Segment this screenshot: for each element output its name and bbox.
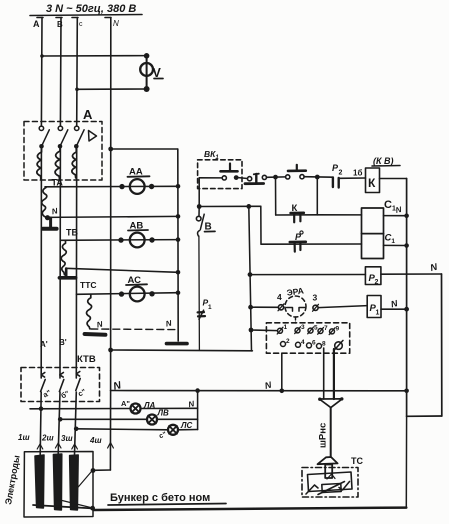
wire P2 box to right edge (381, 273, 442, 275)
svg-text:В: В (57, 20, 63, 29)
node C1 lower rail (404, 243, 409, 248)
svg-text:шРнс: шРнс (318, 423, 329, 448)
switch V (196, 207, 215, 237)
wire start to P2 contact (304, 176, 332, 179)
svg-text:ЛА: ЛА (143, 401, 155, 410)
svg-text:К: К (368, 176, 376, 190)
svg-text:1: 1 (376, 310, 380, 317)
phase line A (37, 18, 43, 456)
ERA row wire left (251, 306, 279, 308)
neutral line N (105, 18, 111, 391)
wire 4sh into bunker (93, 469, 110, 471)
svg-text:С1: С1 (385, 233, 396, 246)
ERA stub to terminal box (295, 317, 297, 323)
terminal 1 (277, 324, 287, 334)
cable pair wire 2 (333, 349, 335, 399)
svg-text:3: 3 (313, 293, 318, 303)
cable pair wire 1 (323, 348, 325, 399)
svg-text:с: с (79, 21, 83, 28)
arrow on 4sh line (108, 443, 114, 449)
breaker coil pole A (37, 146, 42, 179)
cable drop to N bus (281, 353, 283, 391)
svg-text:6: 6 (312, 340, 316, 347)
bell neck (325, 465, 332, 479)
N/4sh drop to bunker (109, 391, 111, 471)
wire lampA to N (141, 407, 198, 409)
right rail lower (405, 416, 407, 507)
wire voltmeter top (42, 55, 147, 57)
TB ground (59, 269, 75, 278)
node lamp row B (58, 417, 63, 422)
sensor top marks (327, 474, 335, 479)
breaker pole C switch (74, 126, 84, 149)
svg-text:N: N (395, 205, 403, 215)
relay P1 box (367, 296, 381, 318)
svg-text:с": с" (76, 387, 87, 399)
node bunker lower (90, 506, 95, 511)
terminal block dashed box (266, 323, 349, 353)
wire P1 box to rail (381, 308, 407, 310)
right rail upper (406, 179, 408, 417)
node C1 upper rail (404, 213, 409, 218)
transformer TA winding (42, 188, 47, 218)
svg-text:N: N (390, 298, 399, 309)
funnel corner blob right (340, 397, 343, 400)
terminal 5 (308, 325, 318, 334)
VK1 contact (199, 164, 238, 181)
svg-text:ТВ: ТВ (66, 228, 78, 238)
ERA terminal 4 (278, 304, 284, 311)
cable gland (334, 340, 343, 350)
transformer TB winding (61, 240, 66, 274)
ERA internal pin right (299, 308, 305, 312)
KTV contact pole C (76, 372, 80, 391)
arrow on electrode stub 2 (55, 443, 61, 448)
KTV contact pole A (41, 373, 46, 392)
N return row from TB (66, 268, 178, 272)
wire P2 contact to K coil (340, 177, 366, 179)
svg-text:4: 4 (301, 339, 305, 346)
N distribution bus (111, 390, 407, 392)
start button (286, 165, 306, 179)
limit switch VK1 dashed box (198, 160, 242, 189)
node on return row (176, 214, 181, 219)
svg-text:1б: 1б (353, 169, 362, 178)
relay P2 box (365, 267, 381, 285)
ERA dashed circle (285, 296, 306, 317)
dropper A vertical (249, 206, 252, 350)
phase line C (72, 18, 78, 456)
svg-text:ЛС: ЛС (180, 421, 192, 430)
svg-text:2: 2 (339, 170, 343, 177)
svg-text:А": А" (121, 399, 130, 408)
node at A (40, 54, 44, 58)
dropper B vertical (260, 206, 262, 244)
funnel corner blob left (318, 398, 321, 401)
node P1 rail (404, 307, 409, 312)
svg-text:N: N (113, 19, 119, 28)
lamps common vertical to N bus (197, 391, 199, 430)
arrow on electrode stub 1 (37, 444, 43, 449)
svg-text:ТА: ТА (52, 178, 64, 188)
breaker pole A switch (39, 126, 49, 149)
bunker box (24, 452, 93, 518)
svg-text:N: N (51, 206, 59, 216)
C1 capacitor boxes (362, 208, 384, 259)
ammeter AB (128, 221, 148, 248)
wire K coil to right rail (380, 178, 407, 180)
jog wire (407, 415, 442, 417)
terminal 6 (307, 340, 317, 348)
right edge vertical (441, 274, 443, 416)
svg-text:7: 7 (324, 325, 328, 332)
terminal 4 (296, 339, 306, 347)
svg-text:N: N (165, 319, 173, 329)
electrode 2 (53, 454, 61, 510)
contact K (291, 203, 304, 222)
terminal 3 (295, 324, 305, 334)
breaker coil pole B (55, 146, 60, 178)
ammeter AB row (60, 237, 180, 243)
node ERA row (248, 305, 253, 310)
svg-text:ТС: ТС (351, 456, 363, 466)
KV underline (372, 165, 400, 168)
voltmeter V (140, 56, 163, 89)
arrow on electrode stub 3 (72, 444, 78, 449)
bunker label underline (108, 504, 226, 506)
svg-text:N: N (96, 320, 104, 330)
svg-text:ТТС: ТТС (80, 280, 97, 290)
node lamp row C (74, 427, 79, 432)
title 3N~50Hz 380V (46, 3, 136, 15)
wire P2 coil row (250, 274, 365, 276)
wire N to ammeter common (111, 148, 178, 150)
wire lampB to N (157, 418, 198, 420)
svg-text:А': А' (40, 340, 48, 349)
node at V switch (197, 204, 202, 209)
funnel (319, 399, 342, 408)
sensor bell (318, 457, 338, 464)
svg-text:2ш: 2ш (41, 434, 54, 443)
breaker pole B switch (58, 126, 68, 149)
wire ERA to P1 coil (319, 306, 368, 308)
ERA terminal 3 (313, 304, 319, 311)
svg-text:КТВ: КТВ (77, 354, 96, 365)
terminal 9 (329, 326, 339, 335)
svg-text:Бункер с бето ном: Бункер с бето ном (110, 492, 210, 504)
node voltmeter top (144, 53, 150, 59)
ammeter AC (126, 275, 147, 301)
svg-text:8: 8 (322, 341, 326, 348)
node on bunker wall (91, 468, 96, 473)
contact P1 (in V branch) (198, 298, 212, 320)
svg-text:4ш: 4ш (89, 436, 102, 445)
node on N line (108, 147, 113, 152)
svg-text:б": б" (59, 389, 71, 401)
electrode bottom diagonal 1 (33, 505, 93, 508)
lamp row A (30, 408, 131, 410)
sensor inner housing (308, 472, 353, 492)
breaker trip triangle (89, 131, 97, 142)
svg-text:1: 1 (284, 324, 288, 331)
node drop to C1 (315, 175, 320, 180)
node lamp row A (39, 406, 44, 411)
wire V switch down (198, 236, 201, 350)
node right rail N bus (404, 389, 409, 394)
svg-text:А: А (83, 107, 93, 122)
svg-text:а": а" (41, 388, 52, 400)
lamp LA (131, 404, 141, 414)
svg-text:с": с" (158, 431, 167, 440)
svg-text:2: 2 (286, 338, 290, 345)
lamp LB (147, 415, 157, 425)
sensor TC dash-dot box (302, 468, 358, 498)
electrode 3 (70, 455, 79, 510)
svg-text:N: N (264, 380, 273, 391)
node cable N (280, 389, 285, 394)
diagonal to upper node (77, 472, 92, 490)
N return row from TTC (dashed) (91, 328, 178, 331)
svg-text:(К В): (К В) (373, 156, 394, 166)
sensor lead left (306, 485, 318, 494)
svg-text:2: 2 (375, 279, 379, 286)
wire voltmeter bottom (77, 88, 147, 90)
svg-text:N: N (112, 379, 123, 393)
svg-text:ЛВ: ЛВ (157, 409, 169, 418)
wire to C1 upper (317, 214, 361, 216)
node lamps common (195, 388, 200, 393)
sensor lead right (339, 482, 350, 491)
breaker A dashed box (24, 122, 102, 181)
svg-text:3: 3 (301, 324, 305, 331)
wire lampC to N (178, 429, 198, 431)
svg-text:3 N ~ 50гц, 380 В: 3 N ~ 50гц, 380 В (46, 3, 136, 15)
node on TB return row (176, 270, 181, 275)
contactor KTV dashed box (21, 368, 100, 402)
node at C (75, 88, 79, 92)
node P2 row (248, 272, 253, 277)
N bus upper (111, 349, 253, 352)
KTV contact pole B (59, 373, 63, 392)
ammeter AA (128, 167, 150, 194)
thermistor element (318, 482, 345, 495)
node dropper A (246, 204, 251, 209)
node voltmeter bottom (144, 86, 150, 92)
ammeter common ground (167, 342, 188, 346)
wire P contact row (261, 243, 362, 245)
lamp LC (168, 425, 178, 435)
stop button 1 (245, 174, 267, 184)
wire stop to junction (267, 176, 286, 178)
phase line B (56, 18, 62, 455)
N return row from TA (47, 216, 178, 217)
contact P2 (332, 163, 343, 188)
electrode 1 (35, 455, 44, 508)
svg-text:4: 4 (277, 292, 282, 302)
wire to terminal 1 (251, 329, 278, 332)
svg-text:3ш: 3ш (61, 434, 73, 443)
wire C1 upper to rail (384, 215, 407, 217)
svg-text:В': В' (59, 338, 67, 347)
ammeter AC row (76, 290, 180, 296)
svg-text:1: 1 (208, 304, 212, 311)
svg-text:N: N (188, 399, 196, 409)
svg-text:1ш: 1ш (18, 433, 30, 442)
svg-text:9: 9 (336, 326, 340, 333)
contact P (290, 231, 306, 252)
ammeter common vertical (177, 149, 179, 341)
TA ground (43, 215, 57, 229)
transformer TTC winding (87, 294, 92, 329)
wire VK1 to stop button (239, 177, 248, 180)
switch V feed corner (198, 178, 200, 207)
svg-text:А: А (33, 19, 40, 29)
cable single line (330, 408, 332, 457)
wire C1 lower to rail (384, 244, 407, 246)
electrode bottom diagonal 2 (56, 499, 93, 508)
ERA internal pin left (287, 308, 293, 312)
node N bus upper (108, 348, 113, 353)
breaker coil pole C (72, 146, 76, 178)
node self-hold tap (273, 175, 278, 180)
header wire to droppers (199, 205, 261, 207)
svg-text:Электроды: Электроды (3, 454, 22, 505)
node terminal row (249, 328, 254, 333)
title underline (30, 15, 142, 16)
self-hold branch down (275, 177, 277, 215)
lamp row C (76, 429, 168, 430)
terminal 7 (318, 325, 328, 334)
lamp row B (60, 418, 147, 420)
relay coil K box (366, 168, 380, 193)
terminal 8 (317, 341, 327, 349)
drop from start wire (316, 177, 318, 215)
terminal 2 (281, 338, 291, 347)
wire to K contact (276, 214, 318, 216)
TTC ground (85, 332, 106, 337)
ammeter AA row (45, 184, 180, 190)
svg-text:N: N (429, 261, 439, 274)
bottom bus (94, 508, 407, 510)
